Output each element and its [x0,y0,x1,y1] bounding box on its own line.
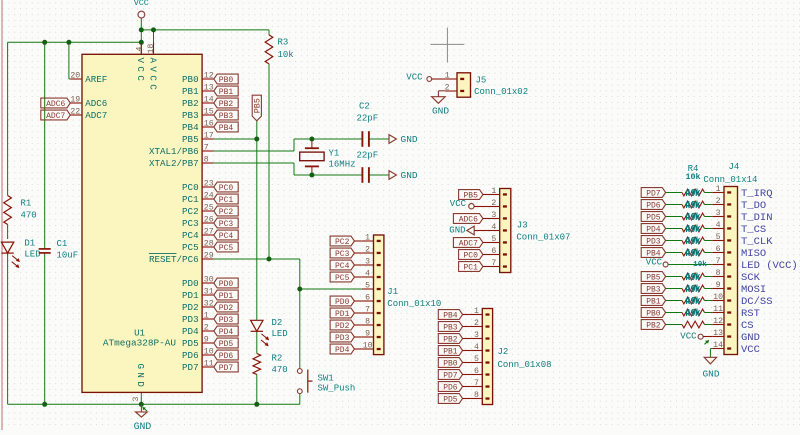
svg-text:9: 9 [204,335,209,344]
svg-text:GND: GND [741,332,760,344]
svg-text:2: 2 [204,323,209,332]
svg-text:GND: GND [449,225,465,235]
svg-text:30: 30 [204,275,214,284]
svg-text:ADC7: ADC7 [46,112,65,121]
svg-text:LED: LED [272,329,288,339]
svg-text:PD5: PD5 [443,395,458,404]
svg-text:R5k: R5k [685,238,700,247]
svg-text:PD4: PD4 [219,328,234,337]
svg-text:PB3: PB3 [646,285,661,294]
svg-text:17: 17 [204,131,214,140]
svg-text:R3: R3 [278,37,289,47]
svg-text:20: 20 [70,71,80,80]
svg-text:10k: 10k [693,261,707,269]
svg-text:PD1: PD1 [335,310,350,319]
svg-text:MISO: MISO [741,248,766,260]
svg-text:16: 16 [204,119,214,128]
svg-text:PB2: PB2 [443,335,458,344]
svg-text:PD2: PD2 [219,304,234,313]
svg-text:5: 5 [491,235,496,244]
svg-text:22: 22 [70,107,80,116]
svg-text:10k: 10k [278,50,294,60]
svg-text:16MHz: 16MHz [329,159,356,169]
svg-text:10: 10 [713,293,723,302]
svg-text:R5k: R5k [685,310,700,319]
svg-text:PC2: PC2 [219,208,234,217]
svg-text:J1: J1 [387,287,398,297]
svg-text:C2: C2 [359,101,370,111]
svg-text:2: 2 [491,199,496,208]
svg-text:PB0: PB0 [182,74,199,85]
svg-text:PC0: PC0 [463,251,478,260]
svg-text:7: 7 [365,305,370,314]
svg-text:PB3: PB3 [219,112,234,121]
svg-text:5: 5 [474,355,479,364]
svg-text:Conn_01x02: Conn_01x02 [474,87,528,97]
svg-text:PC0: PC0 [182,182,199,193]
svg-text:PC0: PC0 [219,184,234,193]
svg-text:2: 2 [365,245,370,254]
svg-text:8: 8 [716,269,721,278]
svg-text:T_DO: T_DO [741,200,766,212]
svg-text:PD7: PD7 [219,364,234,373]
svg-text:VCC: VCC [680,331,697,341]
svg-text:3: 3 [491,211,496,220]
svg-text:3: 3 [716,209,721,218]
svg-text:5: 5 [716,233,721,242]
svg-text:ADC7: ADC7 [85,110,107,121]
svg-text:LED (VCC): LED (VCC) [741,260,798,272]
svg-text:PC4: PC4 [182,230,199,241]
svg-text:24: 24 [204,191,214,200]
svg-text:PD6: PD6 [443,383,458,392]
svg-text:CS: CS [741,320,754,332]
svg-text:T_IRQ: T_IRQ [741,188,773,200]
svg-text:PB1: PB1 [219,88,234,97]
svg-text:GND: GND [134,421,152,430]
svg-text:PB1: PB1 [182,86,199,97]
svg-text:PB2: PB2 [182,98,199,109]
svg-text:T_DIN: T_DIN [741,212,773,224]
svg-text:10: 10 [204,347,214,356]
svg-text:PB5: PB5 [253,98,263,113]
svg-text:PB0: PB0 [219,76,234,85]
svg-text:PB1: PB1 [443,347,458,356]
svg-text:19: 19 [70,95,80,104]
svg-text:Y1: Y1 [329,148,340,158]
svg-text:7: 7 [204,143,209,152]
svg-text:11: 11 [204,359,214,368]
svg-text:PD7: PD7 [443,371,458,380]
svg-text:PD3: PD3 [646,237,661,246]
svg-text:RST: RST [741,308,760,320]
svg-text:R5k: R5k [685,274,700,283]
svg-text:SCK: SCK [741,272,761,284]
svg-text:Conn_01x10: Conn_01x10 [387,299,441,309]
svg-text:PD0: PD0 [182,278,199,289]
svg-text:VCC: VCC [406,72,423,82]
svg-text:GND: GND [432,106,449,117]
svg-text:10: 10 [363,341,373,350]
svg-text:PD3: PD3 [182,314,199,325]
svg-text:2: 2 [445,83,450,92]
svg-text:470: 470 [21,210,37,220]
svg-text:27: 27 [204,227,214,236]
svg-text:29: 29 [204,251,214,260]
svg-text:VCC: VCC [741,344,760,356]
svg-text:R5k: R5k [685,202,700,211]
svg-text:12: 12 [713,317,723,326]
svg-text:1: 1 [365,233,370,242]
svg-text:PD2: PD2 [335,322,350,331]
svg-text:R5k: R5k [685,214,700,223]
svg-text:9: 9 [716,281,721,290]
svg-text:PB3: PB3 [443,323,458,332]
svg-text:GND: GND [702,369,719,380]
svg-text:2: 2 [474,319,479,328]
svg-text:PD3: PD3 [335,334,350,343]
svg-text:7: 7 [474,379,479,388]
svg-text:PD0: PD0 [335,298,350,307]
svg-text:LED: LED [24,249,40,259]
svg-text:ADC6: ADC6 [46,100,65,109]
svg-text:2: 2 [716,197,721,206]
svg-text:D1: D1 [24,238,35,248]
svg-text:PD5: PD5 [646,213,661,222]
svg-text:PD5: PD5 [219,340,234,349]
svg-text:PB4: PB4 [219,124,234,133]
svg-text:PC3: PC3 [335,250,350,259]
svg-text:28: 28 [204,239,214,248]
svg-text:PC1: PC1 [463,263,478,272]
svg-text:PD1: PD1 [182,290,199,301]
svg-text:4: 4 [365,269,370,278]
svg-text:PC1: PC1 [219,196,234,205]
svg-text:GND: GND [135,364,146,391]
svg-text:PB4: PB4 [443,311,458,320]
svg-text:4: 4 [474,343,479,352]
svg-text:PC1: PC1 [182,194,199,205]
svg-text:10k: 10k [685,172,700,182]
svg-text:R5k: R5k [685,226,700,235]
svg-text:PC2: PC2 [182,206,199,217]
svg-text:13: 13 [204,83,214,92]
svg-text:PD4: PD4 [335,346,350,355]
svg-text:Conn_01x14: Conn_01x14 [703,175,757,185]
svg-text:R5k: R5k [685,190,700,199]
svg-text:PD6: PD6 [182,350,199,361]
svg-text:GND: GND [401,134,418,145]
svg-text:XTAL1/PB6: XTAL1/PB6 [149,146,199,157]
svg-text:PB0: PB0 [646,309,661,318]
svg-text:PB0: PB0 [443,359,458,368]
svg-text:PB2: PB2 [646,321,661,330]
svg-text:PC2: PC2 [335,238,350,247]
svg-text:10uF: 10uF [57,250,79,260]
svg-text:13: 13 [713,329,723,338]
svg-text:C1: C1 [57,239,68,249]
svg-text:11: 11 [713,305,723,314]
svg-text:8: 8 [474,391,479,400]
svg-text:R5k: R5k [685,286,700,295]
svg-text:1: 1 [716,185,721,194]
svg-text:4: 4 [136,47,145,52]
svg-text:14: 14 [204,95,214,104]
svg-text:PD4: PD4 [182,326,199,337]
svg-text:22pF: 22pF [357,150,379,160]
svg-text:4: 4 [491,223,496,232]
svg-text:RESET/PC6: RESET/PC6 [149,254,199,265]
svg-text:PC3: PC3 [219,220,234,229]
svg-text:Conn_01x08: Conn_01x08 [498,360,552,370]
svg-text:8: 8 [365,317,370,326]
svg-text:PB5: PB5 [182,134,199,145]
svg-text:PB1: PB1 [646,297,661,306]
svg-text:PB5: PB5 [646,273,661,282]
svg-text:PD6: PD6 [219,352,234,361]
svg-text:J2: J2 [498,347,509,357]
svg-text:22pF: 22pF [357,113,379,123]
svg-text:PD7: PD7 [646,189,661,198]
svg-text:D2: D2 [272,318,283,328]
svg-text:T_CLK: T_CLK [741,236,773,248]
svg-text:6: 6 [365,293,370,302]
svg-text:3: 3 [132,397,141,402]
svg-text:PD6: PD6 [646,201,661,210]
svg-text:ADC6: ADC6 [85,98,107,109]
svg-text:MOSI: MOSI [741,284,766,296]
svg-text:VCC: VCC [450,199,467,209]
svg-text:12: 12 [204,71,214,80]
svg-text:6: 6 [491,247,496,256]
svg-text:PB3: PB3 [182,110,199,121]
svg-text:23: 23 [204,179,214,188]
svg-text:R1: R1 [21,198,32,208]
svg-text:PD0: PD0 [219,280,234,289]
svg-text:6: 6 [474,367,479,376]
svg-text:470: 470 [272,365,288,375]
svg-text:J3: J3 [517,220,528,230]
svg-text:ATmega328P-AU: ATmega328P-AU [103,338,176,349]
svg-text:PD5: PD5 [182,338,199,349]
svg-text:7: 7 [491,259,496,268]
svg-text:SW1: SW1 [318,373,334,383]
svg-text:AVCC: AVCC [147,58,158,94]
svg-text:XTAL2/PB7: XTAL2/PB7 [149,158,199,169]
svg-text:PC5: PC5 [335,274,350,283]
svg-text:PD7: PD7 [182,362,199,373]
svg-text:VCC: VCC [135,58,146,85]
svg-text:PD3: PD3 [219,316,234,325]
svg-text:7: 7 [716,257,721,266]
svg-text:VCC: VCC [646,257,663,267]
svg-text:T_CS: T_CS [741,224,766,236]
svg-text:Conn_01x07: Conn_01x07 [516,232,570,242]
svg-text:9: 9 [365,329,370,338]
svg-text:R2: R2 [272,353,283,363]
svg-text:1: 1 [474,307,479,316]
svg-text:3: 3 [474,331,479,340]
svg-text:18: 18 [147,44,156,54]
svg-text:1: 1 [491,187,496,196]
svg-text:ADC6: ADC6 [459,215,478,224]
svg-text:25: 25 [204,203,214,212]
svg-text:PB2: PB2 [219,100,234,109]
svg-text:SW_Push: SW_Push [318,383,356,393]
svg-text:PD2: PD2 [182,302,199,313]
svg-text:31: 31 [204,287,214,296]
svg-text:15: 15 [204,107,214,116]
svg-text:PC4: PC4 [335,262,350,271]
svg-text:J4: J4 [729,162,740,172]
svg-text:3: 3 [365,257,370,266]
svg-text:4: 4 [716,221,721,230]
svg-text:GND: GND [401,170,418,181]
svg-text:J5: J5 [476,76,487,86]
svg-text:PB4: PB4 [182,122,199,133]
svg-text:R5k: R5k [685,298,700,307]
svg-text:VCC: VCC [134,0,149,8]
svg-text:PC3: PC3 [182,218,199,229]
svg-text:AREF: AREF [85,74,107,85]
svg-text:26: 26 [204,215,214,224]
svg-text:PC5: PC5 [219,244,234,253]
svg-text:14: 14 [713,341,723,350]
svg-text:5: 5 [365,281,370,290]
svg-text:R5k: R5k [685,250,700,259]
svg-text:PC4: PC4 [219,232,234,241]
svg-text:8: 8 [204,155,209,164]
svg-text:PD1: PD1 [219,292,234,301]
svg-text:6: 6 [716,245,721,254]
svg-text:32: 32 [204,299,214,308]
svg-text:1: 1 [204,311,209,320]
svg-text:ADC7: ADC7 [459,239,478,248]
svg-text:DC/SS: DC/SS [741,296,773,308]
svg-text:1: 1 [445,71,450,80]
svg-text:PC5: PC5 [182,242,199,253]
svg-text:PD4: PD4 [646,225,661,234]
